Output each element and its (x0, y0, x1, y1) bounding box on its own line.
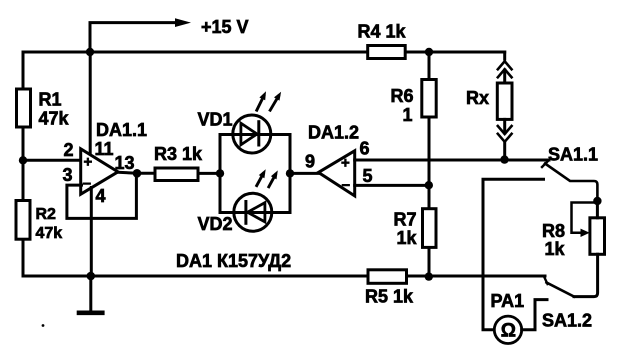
wire: +15V stub to arrow (90, 23, 176, 52)
Rx top chevrons (498, 61, 512, 77)
svg-text:Rx: Rx (466, 88, 489, 108)
wire: PA1 right hook to SA1.2 lower contact (522, 300, 547, 330)
wire: Rx bottom stub (503, 142, 506, 159)
wire: VD2 branch (220, 211, 290, 214)
svg-text:47k: 47k (36, 225, 63, 242)
svg-text:5: 5 (363, 166, 373, 186)
svg-text:3: 3 (63, 165, 73, 185)
wire: bottom ground rail (23, 275, 545, 278)
wire: pin2 input (23, 159, 81, 162)
wire: Rx stem bottom (503, 119, 506, 133)
svg-text:+: + (341, 155, 350, 172)
resistor R4 (368, 46, 406, 59)
wire: VD1 branch (220, 133, 290, 136)
node: junction left rail / pin2 (19, 156, 27, 164)
node: SA1.1 common / R8 top junction (593, 197, 601, 205)
svg-text:1k: 1k (545, 239, 566, 259)
svg-text:R5 1k: R5 1k (365, 287, 414, 307)
svg-text:47k: 47k (39, 109, 70, 129)
resistor R8 (rheostat) (590, 218, 605, 255)
svg-text:VD2: VD2 (198, 214, 233, 234)
resistor R5 (368, 270, 407, 284)
svg-text:R7: R7 (394, 210, 417, 230)
svg-text:DA1 К157УД2: DA1 К157УД2 (176, 251, 291, 271)
svg-text:9: 9 (305, 152, 315, 172)
wire: LED right riser (289, 135, 292, 213)
node: output junction (133, 169, 142, 178)
wire: pin5 line (355, 184, 429, 187)
R8 wiper (572, 203, 596, 233)
svg-text:4: 4 (96, 186, 106, 206)
switch SA1.2 (544, 277, 574, 297)
svg-text:R2: R2 (36, 206, 57, 223)
wire: R6/R7 chain (428, 52, 431, 277)
wire: pin6 line to SA1.1 (355, 159, 549, 162)
wire: pin11 supply (89, 52, 92, 155)
wire: LED left riser (219, 135, 222, 213)
+15V arrow head (175, 18, 191, 27)
node: LED left junction (216, 169, 224, 177)
wire: pin4 to ground rail (90, 188, 93, 277)
resistor R1 (17, 89, 31, 127)
node: R7/bottom rail junction (425, 272, 433, 280)
svg-text:2: 2 (64, 140, 74, 160)
meter PA1 (494, 316, 521, 343)
resistor Rx (497, 83, 512, 119)
node: pin5 junction (425, 181, 433, 189)
node: pin4/ground junction (87, 272, 96, 281)
svg-text:1k: 1k (397, 228, 418, 248)
wire: +15V top rail left segment (23, 51, 368, 54)
svg-text:DA1.2: DA1.2 (308, 123, 359, 143)
svg-text:−: − (342, 177, 351, 194)
op-amp DA1.1 (81, 149, 118, 194)
resistor R7 (423, 209, 437, 248)
node: LED right junction (286, 169, 294, 177)
svg-text:SA1.1: SA1.1 (548, 145, 598, 165)
ground (89, 276, 92, 313)
wire: R8 bottom to SA1.2 common (574, 254, 598, 296)
wire: SA1.1 lower contact to PA1 (483, 179, 544, 329)
node: Rx/pin6 junction (500, 155, 508, 163)
Rx bottom chevrons (498, 126, 512, 142)
wire: DA1.1 output to R3 (117, 172, 155, 173)
wire: left rail x=23 (22, 52, 25, 276)
svg-text:13: 13 (115, 153, 135, 173)
svg-text:VD1: VD1 (198, 110, 233, 130)
svg-text:1: 1 (403, 105, 413, 125)
svg-text:PA1: PA1 (491, 291, 525, 311)
resistor R3 (155, 168, 198, 181)
resistor R6 (422, 80, 436, 118)
node: junction R4/R6 (425, 48, 433, 56)
svg-text:R4 1k: R4 1k (358, 22, 407, 42)
wire: Rx stem top (503, 70, 506, 83)
svg-text:+: + (84, 154, 93, 171)
svg-text:11: 11 (95, 139, 114, 159)
node: junction top rail / pin11 (86, 48, 94, 56)
LED VD1 (233, 91, 281, 153)
svg-text:+15 V: +15 V (201, 17, 249, 37)
svg-text:6: 6 (360, 139, 370, 159)
wire: top rail right segment R4 to Rx corner (405, 51, 505, 54)
svg-text:SA1.2: SA1.2 (542, 311, 592, 331)
op-amp DA1.2 (318, 151, 354, 196)
wire: R3 to LED node (198, 172, 220, 175)
switch SA1.1 (542, 162, 597, 202)
svg-text:R3 1k: R3 1k (154, 144, 203, 164)
svg-text:R8: R8 (542, 221, 565, 241)
wire: Rx top stub (503, 52, 506, 59)
svg-text:Ω: Ω (501, 321, 516, 342)
wire: pin3 feedback loop (67, 173, 136, 218)
scan speck (42, 324, 45, 327)
wire: LED node to DA1.2 pin9 (290, 172, 318, 175)
LED VD2 (234, 169, 278, 231)
svg-text:R1: R1 (39, 90, 62, 110)
wire: R8 top stub (596, 201, 599, 218)
svg-text:DA1.1: DA1.1 (96, 120, 147, 140)
svg-text:R6: R6 (391, 86, 414, 106)
resistor R2 (16, 201, 30, 240)
